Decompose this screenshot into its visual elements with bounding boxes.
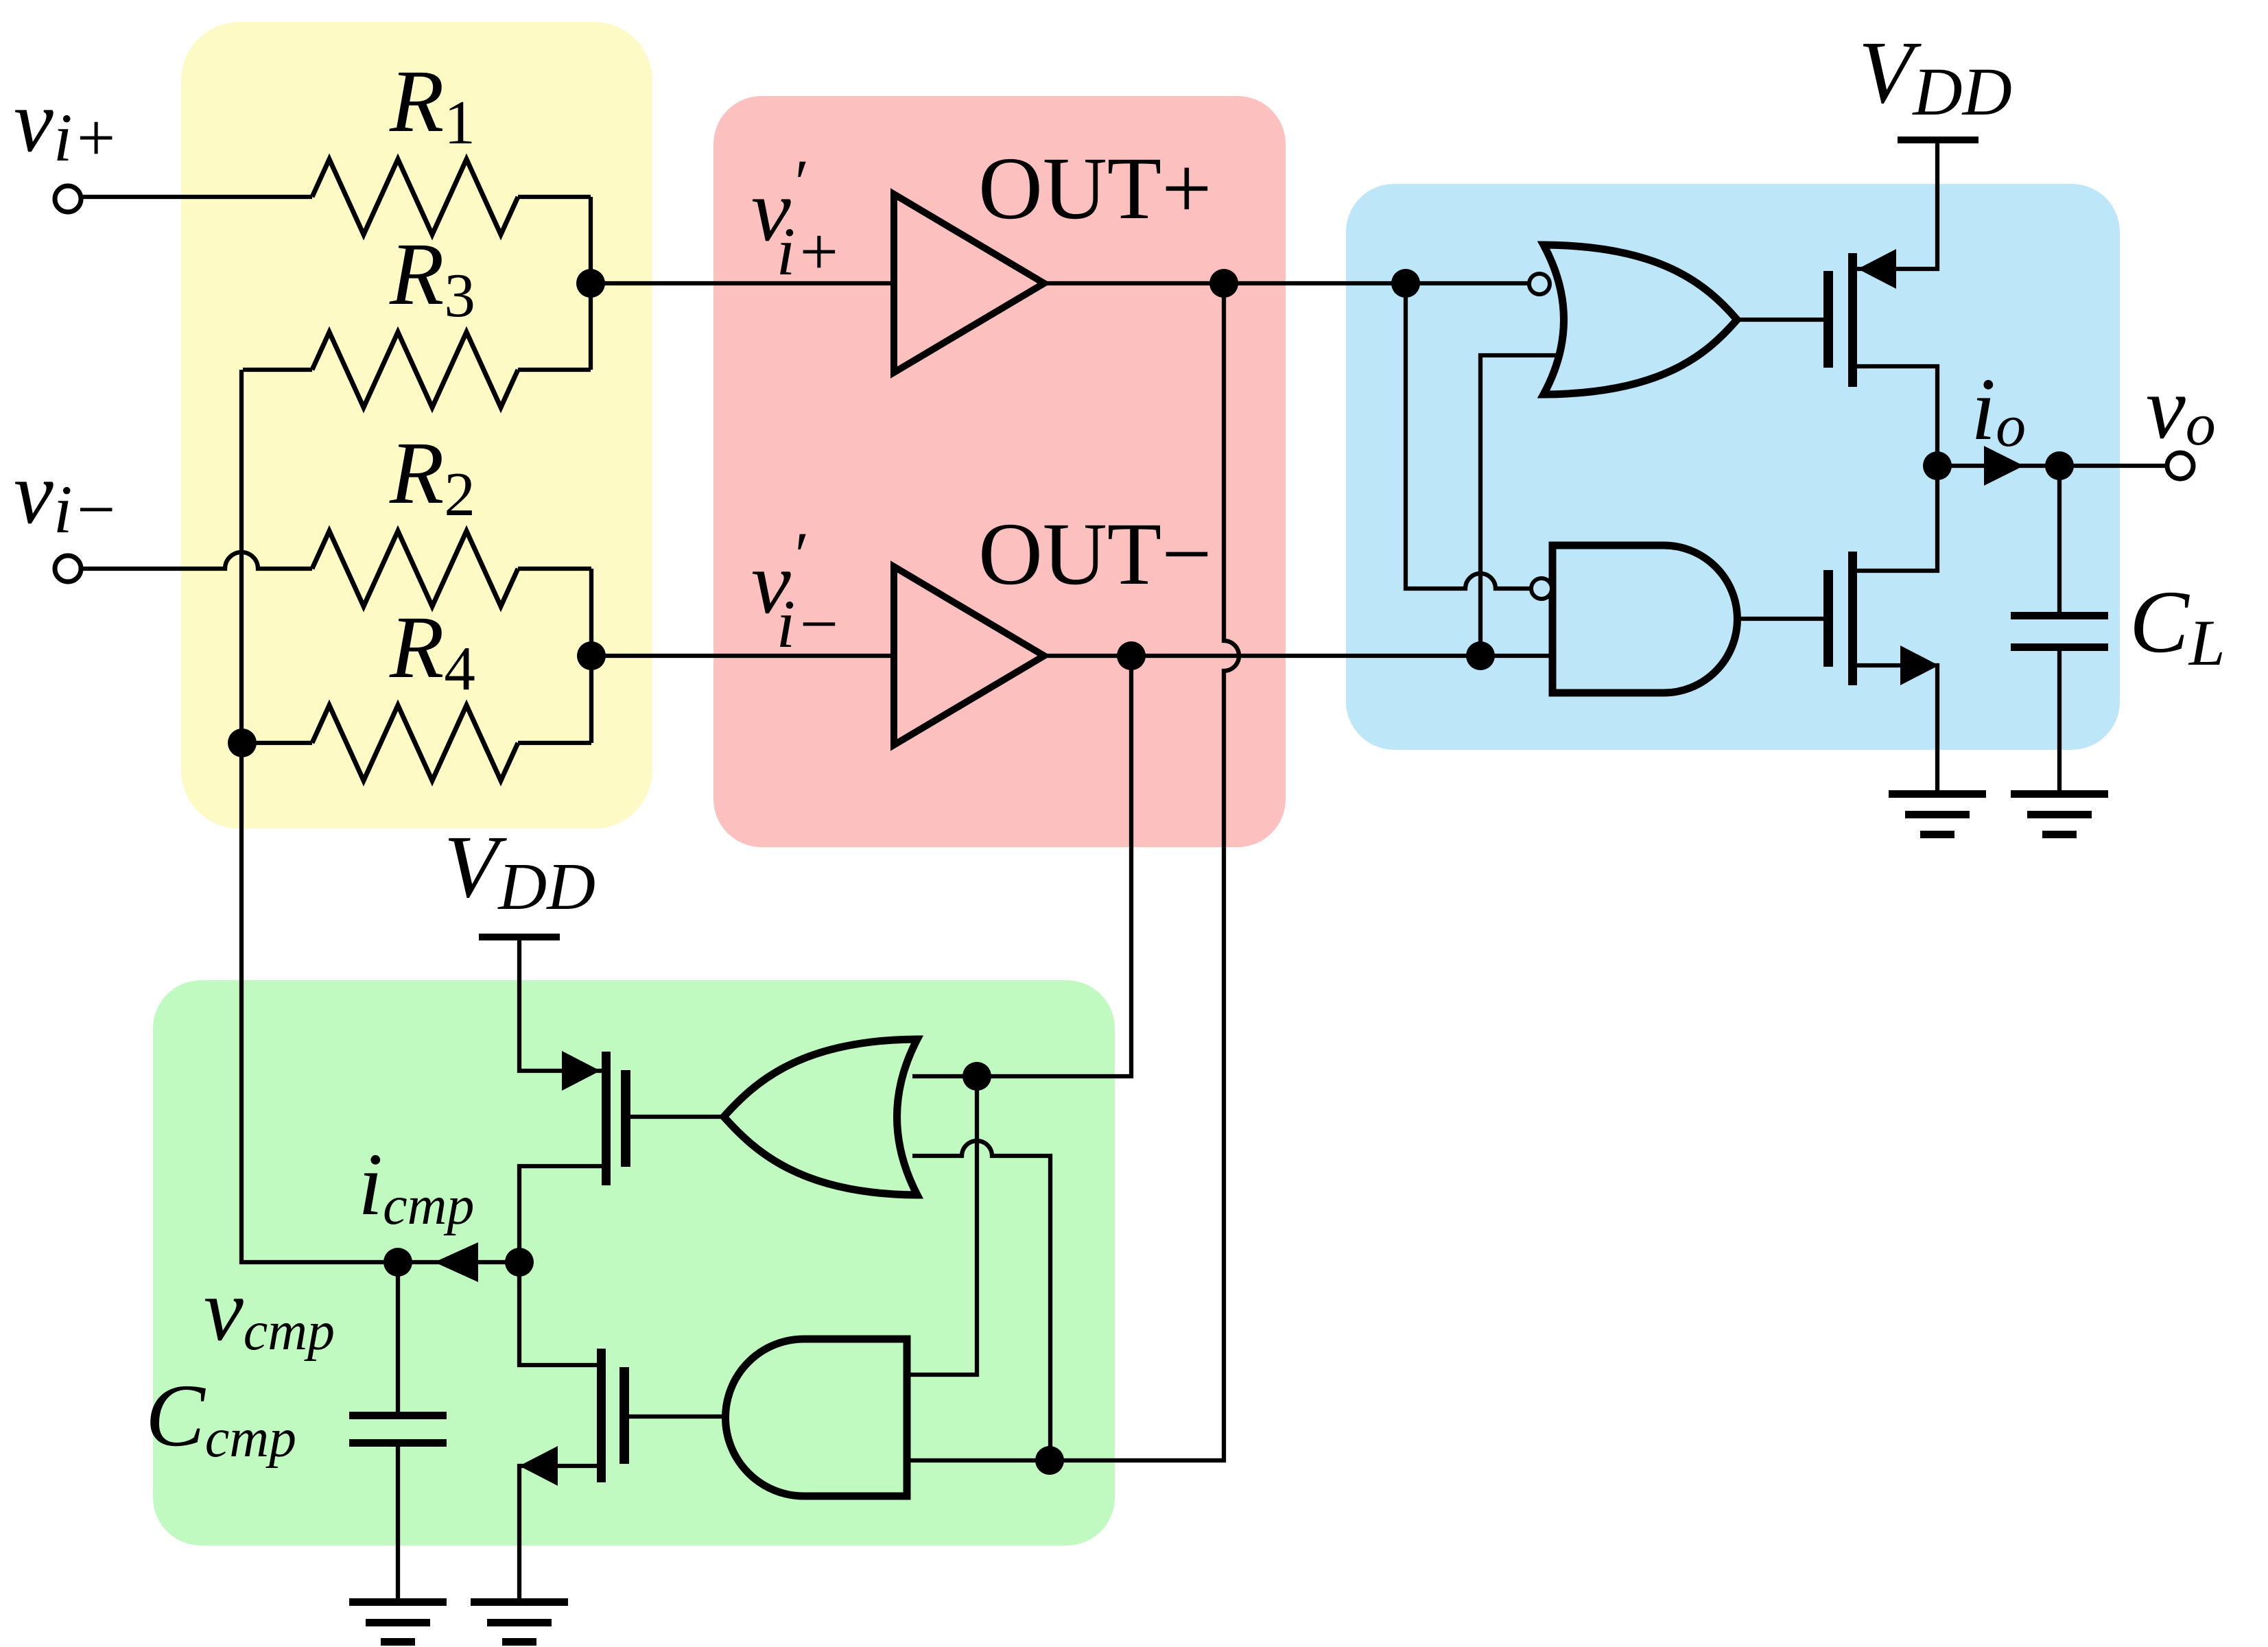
junction node AND bottom input — [1035, 1446, 1064, 1475]
buffer region (pink) — [713, 96, 1286, 847]
terminal vi+ — [55, 186, 81, 212]
svg-text:VDD: VDD — [1858, 23, 2012, 130]
junction node OUT+ — [1209, 269, 1238, 298]
junction node OR top input — [962, 1062, 991, 1091]
wire AND bottom input from node — [910, 1458, 1050, 1462]
wire vcmp node horizontal with icmp arrow — [398, 1260, 519, 1264]
junction node vo — [2045, 451, 2074, 480]
transistor M2 blue NMOS bars — [1823, 552, 1857, 685]
wire node A to buffer1 input — [591, 281, 899, 285]
arrow blue PMOS source — [1858, 249, 1896, 289]
wire vertical B from OUT- down to OR top input — [912, 656, 1131, 1076]
VDD rail bar (green section) — [479, 934, 560, 940]
wire green NMOS source to ground — [519, 1466, 606, 1600]
ground under blue NMOS — [1889, 790, 1986, 838]
junction node R4 left — [228, 728, 257, 757]
wire blue NMOS source to ground — [1852, 665, 1937, 792]
ground under green NMOS — [471, 1598, 568, 1646]
wire OUT- line from buffer2 to NAND input — [1044, 654, 1557, 658]
svg-text:VDD: VDD — [444, 818, 595, 924]
resistor network region (yellow) — [181, 22, 652, 829]
junction node OUT- — [1117, 641, 1146, 670]
wire R3 left lead — [243, 368, 312, 372]
svg-text:vi−: vi− — [14, 444, 119, 547]
transistor M3 green PMOS bars — [602, 1052, 630, 1185]
wire node B to buffer2 input — [591, 654, 899, 658]
wire blue PMOS source to VDD — [1852, 143, 1937, 269]
arrow io current — [1984, 446, 2024, 486]
wire R4 right lead — [518, 741, 591, 745]
arrow green PMOS source — [562, 1051, 600, 1091]
wire output node to vo terminal — [1937, 464, 2168, 468]
resistor R4 — [312, 705, 518, 781]
wire vo node down to CL top plate — [2057, 466, 2062, 612]
wire green PMOS drain to node — [519, 1166, 606, 1262]
ground under Ccmp — [349, 1598, 447, 1646]
wire R2 right lead — [518, 567, 591, 571]
resistor R3 — [312, 332, 518, 407]
op-amp buffer U2 (OUT-) — [894, 567, 1044, 745]
wire vertical joining R2 and R4 right ends — [589, 569, 593, 743]
svg-text:vi+: vi+ — [14, 72, 119, 176]
wire vertical C from OR-input node to AND top input — [910, 1076, 977, 1375]
bubble on NAND top input — [1531, 578, 1552, 599]
bubble on NOR top input — [1529, 274, 1550, 294]
AND gate U6 body (green, mirrored) — [726, 1339, 908, 1496]
junction node io — [1923, 451, 1952, 480]
capacitor Ccmp plates — [349, 1412, 447, 1447]
junction node vcmp — [383, 1248, 412, 1277]
op-amp buffer U1 (OUT+) — [894, 194, 1044, 372]
wire green OR output to green PMOS gate — [630, 1115, 724, 1119]
arrow icmp current — [434, 1242, 478, 1282]
wire R1 right lead — [518, 195, 591, 199]
wire NOR bottom input vertical from OUT- line — [1480, 355, 1557, 656]
wire vertical joining R1 and R3 right ends — [589, 197, 593, 370]
wire blue NMOS drain to output node — [1852, 466, 1937, 571]
VDD rail bar (blue section) — [1898, 137, 1978, 143]
arrow green NMOS source — [519, 1446, 558, 1486]
terminal vi- — [55, 556, 81, 582]
wire Ccmp bottom plate to ground — [396, 1447, 400, 1600]
NAND gate U4 body — [1552, 545, 1737, 693]
ground under CL — [2011, 790, 2108, 838]
wire R4 left lead — [242, 741, 312, 745]
terminal vo — [2167, 453, 2193, 479]
svg-text:OUT−: OUT− — [978, 505, 1212, 604]
arrow blue NMOS source — [1900, 645, 1939, 685]
wire OUT+ line from buffer1 to NOR input — [1044, 281, 1529, 285]
wire R3 right lead — [518, 368, 591, 372]
wire vertical A from OUT+ down with hop over OUT- to AND bottom net — [1050, 283, 1239, 1460]
junction node R2/R4 — [577, 641, 606, 670]
svg-text:OUT+: OUT+ — [978, 139, 1212, 238]
junction node OUT+ branch — [1391, 269, 1420, 298]
junction node R1/R3 — [576, 269, 605, 298]
comparator region (green) — [153, 980, 1115, 1545]
wire vi+ input lead to R1 — [80, 195, 312, 199]
wire long vertical from R3 left down to vcmp corner — [241, 370, 398, 1262]
wire blue PMOS drain to output node — [1852, 366, 1937, 466]
wire vcmp node down to Ccmp top plate — [396, 1262, 400, 1412]
wire green VDD down to green PMOS source — [519, 940, 606, 1071]
output stage region (blue) — [1346, 184, 2120, 750]
capacitor CL plates — [2011, 612, 2108, 651]
wire green NMOS drain up to node — [519, 1262, 606, 1365]
wire vertical from OUT+ branch down to NAND top input with hop — [1406, 283, 1532, 589]
wire green OR bottom input with hop over vertical C — [912, 1141, 1050, 1460]
wire vi- input lead with hop over vertical — [80, 552, 312, 569]
wire NOR output to PMOS gate — [1737, 318, 1823, 322]
OR gate U5 body (green, mirrored) — [724, 1039, 917, 1195]
transistor M1 blue PMOS bars — [1823, 253, 1857, 387]
wire green AND output to green NMOS gate — [619, 1414, 725, 1419]
transistor M4 green NMOS bars — [597, 1349, 629, 1482]
svg-text:CL: CL — [2129, 573, 2225, 679]
wire CL bottom plate to ground — [2057, 651, 2062, 792]
junction node OUT- branch — [1466, 641, 1495, 670]
wire NAND output to NMOS gate — [1737, 617, 1823, 621]
resistor R2 — [312, 531, 518, 606]
resistor R1 — [312, 159, 518, 235]
junction node green drains — [505, 1248, 534, 1277]
svg-text:vo: vo — [2146, 359, 2216, 458]
NOR gate U3 body — [1544, 245, 1737, 394]
